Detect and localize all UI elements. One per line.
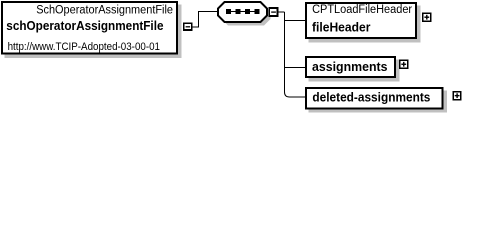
element assignments box [306,57,400,82]
svg-text:SchOperatorAssignmentFile: SchOperatorAssignmentFile [36,4,173,16]
svg-text:assignments: assignments [312,59,388,74]
svg-text:CPTLoadFileHeader: CPTLoadFileHeader [312,4,412,16]
svg-text:http://www.TCIP-Adopted-03-00-: http://www.TCIP-Adopted-03-00-01 [8,41,160,53]
element fileHeader (type CPTLoadFileHeader) box [306,3,421,43]
svg-text:fileHeader: fileHeader [312,19,370,34]
collapse minus box of root element [183,22,193,31]
expand plus box of fileHeader [422,13,431,22]
collapse minus box of sequence [268,7,278,17]
element deleted-assignments box [306,88,447,113]
svg-text:deleted-assignments: deleted-assignments [312,90,430,105]
wire branch to assignments [285,67,307,69]
wire from root minus box to sequence compositor [193,12,219,28]
wire branch to fileHeader [285,12,307,21]
element schOperatorAssignmentFile (root element box) [2,2,182,58]
svg-text:schOperatorAssignmentFile: schOperatorAssignmentFile [6,18,163,33]
wire branch to deleted-assignments [290,96,307,98]
wire from sequence minus box to trunk [278,11,284,13]
sequence compositor symbol [218,2,271,26]
expand plus box of deleted-assignments [453,91,462,100]
wire trunk vertical with curve to last child [285,12,290,97]
expand plus box of assignments [399,60,408,69]
